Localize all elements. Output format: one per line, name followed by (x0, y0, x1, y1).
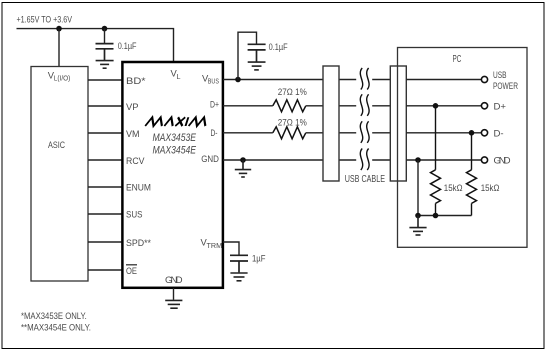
svg-text:OE: OE (126, 266, 137, 277)
svg-text:L: L (177, 72, 181, 81)
wire USB POWER (406, 79, 481, 81)
wire D+ left (223, 105, 273, 107)
junction VCC-ASIC (56, 26, 62, 32)
pin VTRM (201, 237, 223, 250)
svg-text:+1.65V TO +3.6V: +1.65V TO +3.6V (17, 15, 73, 26)
resistor R3 15kΩ (431, 106, 441, 216)
wire D- left (223, 132, 273, 134)
svg-text:L(I/O): L(I/O) (54, 74, 71, 83)
svg-text:SPD**: SPD** (126, 238, 151, 249)
svg-text:D-: D- (494, 128, 504, 139)
wire VTRM to C3 (223, 242, 239, 255)
op-amp U1 MAX3453E/MAX3454E box (122, 62, 222, 288)
svg-text:POWER: POWER (493, 81, 518, 92)
svg-text:*MAX3453E ONLY.: *MAX3453E ONLY. (21, 311, 87, 322)
wire ENUM (88, 186, 122, 188)
ground U1 GND (165, 300, 182, 308)
wire D+ PC (406, 105, 481, 107)
svg-text:USB CABLE: USB CABLE (345, 174, 386, 185)
terminal D+ (481, 103, 487, 109)
wire resistor commons (418, 215, 472, 217)
svg-text:D+: D+ (210, 100, 219, 111)
svg-text:15kΩ: 15kΩ (481, 183, 500, 194)
svg-text:ENUM: ENUM (126, 183, 151, 194)
wire VCC to C1 (104, 29, 106, 43)
svg-text:TRM: TRM (207, 241, 223, 250)
svg-text:SUS: SUS (126, 210, 143, 221)
svg-text:PC: PC (453, 54, 462, 65)
wire SPD** (88, 241, 122, 243)
svg-text:0.1µF: 0.1µF (269, 42, 288, 53)
ground C2 (248, 62, 266, 70)
svg-text:15kΩ: 15kΩ (444, 183, 463, 194)
label USB POWER (493, 70, 518, 92)
junction GND (240, 157, 246, 163)
wire D- PC (406, 132, 481, 134)
junction D- R4 (469, 130, 475, 136)
wire VBUS net (223, 79, 323, 81)
wire RCV (88, 159, 122, 161)
wire SUS (88, 213, 122, 215)
wire D- cable span (339, 132, 390, 134)
svg-text:D+: D+ (494, 101, 507, 112)
wire GND pin to ground (173, 288, 175, 300)
svg-text:1µF: 1µF (252, 253, 266, 264)
resistor R1 27Ω 1% (273, 100, 306, 112)
svg-text:**MAX3454E ONLY.: **MAX3454E ONLY. (21, 323, 91, 334)
svg-text:VM: VM (126, 129, 140, 140)
svg-text:D-: D- (211, 128, 218, 139)
svg-text:27Ω 1%: 27Ω 1% (278, 87, 307, 98)
ground GND net (235, 160, 251, 177)
wire VP (88, 105, 122, 107)
terminal GND (481, 157, 487, 163)
terminal D- (481, 130, 487, 136)
ASIC box (31, 67, 88, 282)
svg-text:GND: GND (201, 154, 219, 165)
wire GND cable span (339, 159, 390, 161)
wire BD* (88, 79, 122, 81)
USB cable connector bar right (390, 66, 406, 181)
svg-text:RCV: RCV (126, 156, 145, 167)
cable break D+ (360, 94, 369, 116)
svg-text:ASIC: ASIC (48, 140, 65, 151)
cable break VBUS (360, 68, 369, 90)
svg-text:MAX3454E: MAX3454E (153, 144, 197, 156)
wire GND down (417, 160, 419, 216)
svg-text:GND: GND (494, 156, 511, 167)
pin label VL(I/O) (48, 69, 71, 82)
svg-text:VP: VP (126, 102, 139, 113)
junction D+ R3 (433, 103, 439, 109)
wire VBUS cable span (339, 79, 390, 81)
pin VL (171, 68, 181, 81)
wire D+ cable span (339, 105, 390, 107)
svg-text:BUS: BUS (208, 76, 219, 85)
resistor R2 27Ω 1% (273, 127, 306, 139)
wire VBUS to C2 (238, 32, 257, 79)
capacitor C2 (248, 44, 266, 61)
pin OE (active low) (126, 265, 137, 277)
svg-text:USB: USB (493, 70, 507, 81)
svg-text:0.1µF: 0.1µF (118, 41, 137, 52)
junction VBUS-C2 (235, 77, 241, 83)
wire VM (88, 132, 122, 134)
junction R3 bottom (433, 213, 439, 219)
wire VCC to ASIC VL (58, 29, 60, 67)
capacitor C3 1µF (230, 255, 248, 272)
ground C1 (96, 61, 114, 69)
pin VBUS (202, 72, 219, 85)
wire OE (88, 269, 122, 271)
wire D- to cable (306, 132, 323, 134)
USB cable connector bar left (323, 66, 339, 181)
resistor R4 15kΩ (467, 133, 477, 216)
MAXIM logo (145, 117, 208, 126)
junction ground-R3 (415, 213, 421, 219)
terminal USB POWER (481, 76, 487, 82)
ground C3 (230, 273, 247, 281)
capacitor C1 (96, 44, 114, 60)
junction GND PC (415, 157, 421, 163)
junction VCC-C1 (102, 26, 108, 32)
wire D+ to cable (306, 105, 323, 107)
svg-text:MAX3453E: MAX3453E (153, 132, 197, 144)
wire GND PC (406, 159, 481, 161)
ground PC (409, 216, 426, 236)
cable break GND (360, 149, 369, 171)
svg-text:27Ω 1%: 27Ω 1% (278, 118, 307, 129)
cable break D- (360, 121, 369, 143)
wire GND net (223, 159, 323, 161)
PC box (398, 48, 528, 248)
svg-text:BD*: BD* (126, 76, 146, 87)
svg-text:GND: GND (165, 275, 183, 286)
wire VCC rail (17, 29, 174, 62)
